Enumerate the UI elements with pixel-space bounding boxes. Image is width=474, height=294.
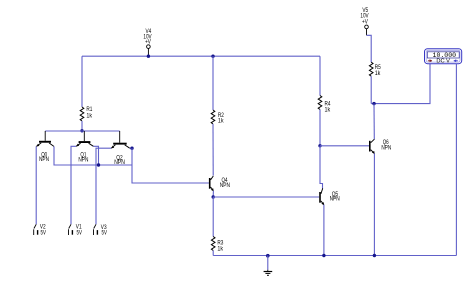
- dc source V2: [0, 0, 46, 236]
- svg-text:5V: 5V: [102, 231, 107, 237]
- svg-text:NPN: NPN: [78, 157, 88, 163]
- node: V4 to rail junction: [147, 55, 150, 58]
- transistor Q4: [209, 176, 230, 191]
- svg-text:5V: 5V: [41, 230, 46, 236]
- resistor R3: [211, 237, 224, 253]
- wire R2 to Q4 collector: [212, 124, 214, 176]
- svg-text:1k: 1k: [325, 108, 332, 114]
- svg-text:NPN: NPN: [220, 183, 230, 189]
- svg-text:1k: 1k: [217, 246, 224, 252]
- node: Q6 emitter on rail: [373, 254, 376, 257]
- wire collector bus to Q4 base: [132, 148, 209, 183]
- wire Q1 emitter to V1: [71, 146, 76, 224]
- transistor Q0: [36, 131, 54, 163]
- power source V5 +V: [360, 8, 368, 36]
- multimeter XMM1: [425, 49, 462, 65]
- dc source V1: [69, 224, 83, 236]
- resistor R1: [80, 107, 93, 121]
- wire R3 bottom lead to ground rail: [212, 251, 214, 256]
- node: R4 Q5 Q6 junction: [318, 144, 321, 147]
- resistor R4: [318, 96, 331, 114]
- wire Q0 collector to collector bus: [54, 146, 132, 165]
- wire V5 to R5: [367, 35, 372, 62]
- wire ground rail: [213, 255, 456, 257]
- node: R5 Q6 meter junction: [372, 102, 375, 105]
- wire Q0 emitter to V2: [35, 146, 37, 224]
- transistor Q1: [76, 131, 93, 163]
- wire Q4 emitter to node: [212, 191, 214, 197]
- node: ground tap: [266, 254, 270, 258]
- svg-text:NPN: NPN: [330, 197, 340, 203]
- wire Q5 emitter to rail: [323, 205, 325, 256]
- wire R2 top lead: [212, 56, 214, 110]
- svg-text:1k: 1k: [86, 113, 93, 119]
- svg-text:5V: 5V: [77, 230, 82, 236]
- wire R5 bottom lead: [370, 76, 372, 103]
- node: Q5 emitter on rail: [322, 254, 325, 257]
- wire node to Q6 base: [320, 145, 369, 147]
- svg-text:R1: R1: [86, 107, 93, 113]
- svg-text:+V: +V: [362, 19, 368, 25]
- svg-text:R4: R4: [325, 102, 332, 108]
- node: Q2 collector junction: [130, 147, 133, 150]
- transistor Q6: [369, 139, 391, 154]
- resistor R5: [369, 62, 381, 77]
- wire R1 top lead: [81, 56, 83, 107]
- wire R1 bottom lead: [81, 121, 83, 131]
- wire R5 node to meter plus: [371, 64, 430, 104]
- dc source V3: [94, 224, 108, 236]
- wire meter minus to ground rail: [455, 64, 457, 256]
- wire node to Q5 collector: [320, 146, 323, 189]
- wire Q2 emitter to V3: [96, 148, 111, 224]
- svg-text:R5: R5: [375, 65, 382, 71]
- wire Q2 collector stub: [130, 147, 132, 149]
- wire R3 top lead: [212, 197, 214, 237]
- svg-text:NPN: NPN: [114, 160, 125, 166]
- transistor Q2: [111, 131, 130, 166]
- node: Q4 emitter junction: [212, 195, 215, 198]
- wire node to Q6 collector: [373, 104, 375, 140]
- svg-text:NPN: NPN: [39, 157, 49, 163]
- wire base bus: [45, 130, 120, 132]
- transistor Q5: [319, 188, 340, 205]
- node: Q1 collector on bus: [97, 163, 100, 166]
- svg-text:1k: 1k: [375, 71, 382, 77]
- wire Q1 collector drop: [93, 146, 98, 165]
- wire Q6 emitter to rail: [373, 154, 375, 256]
- wire R4 top lead: [319, 56, 321, 95]
- node: R2 tap on rail: [211, 55, 214, 58]
- wire Q4 emitter to Q5 base: [213, 196, 319, 198]
- resistor R2: [211, 110, 224, 125]
- svg-text:NPN: NPN: [381, 145, 391, 151]
- ground: [264, 256, 273, 276]
- wire R4 bottom lead: [319, 110, 321, 146]
- power source V4 +V: [143, 29, 151, 56]
- svg-text:1k: 1k: [218, 119, 225, 125]
- node: R1 to base rail: [80, 129, 83, 132]
- svg-text:DC V: DC V: [436, 59, 450, 65]
- wire top rail VCC: [82, 55, 320, 57]
